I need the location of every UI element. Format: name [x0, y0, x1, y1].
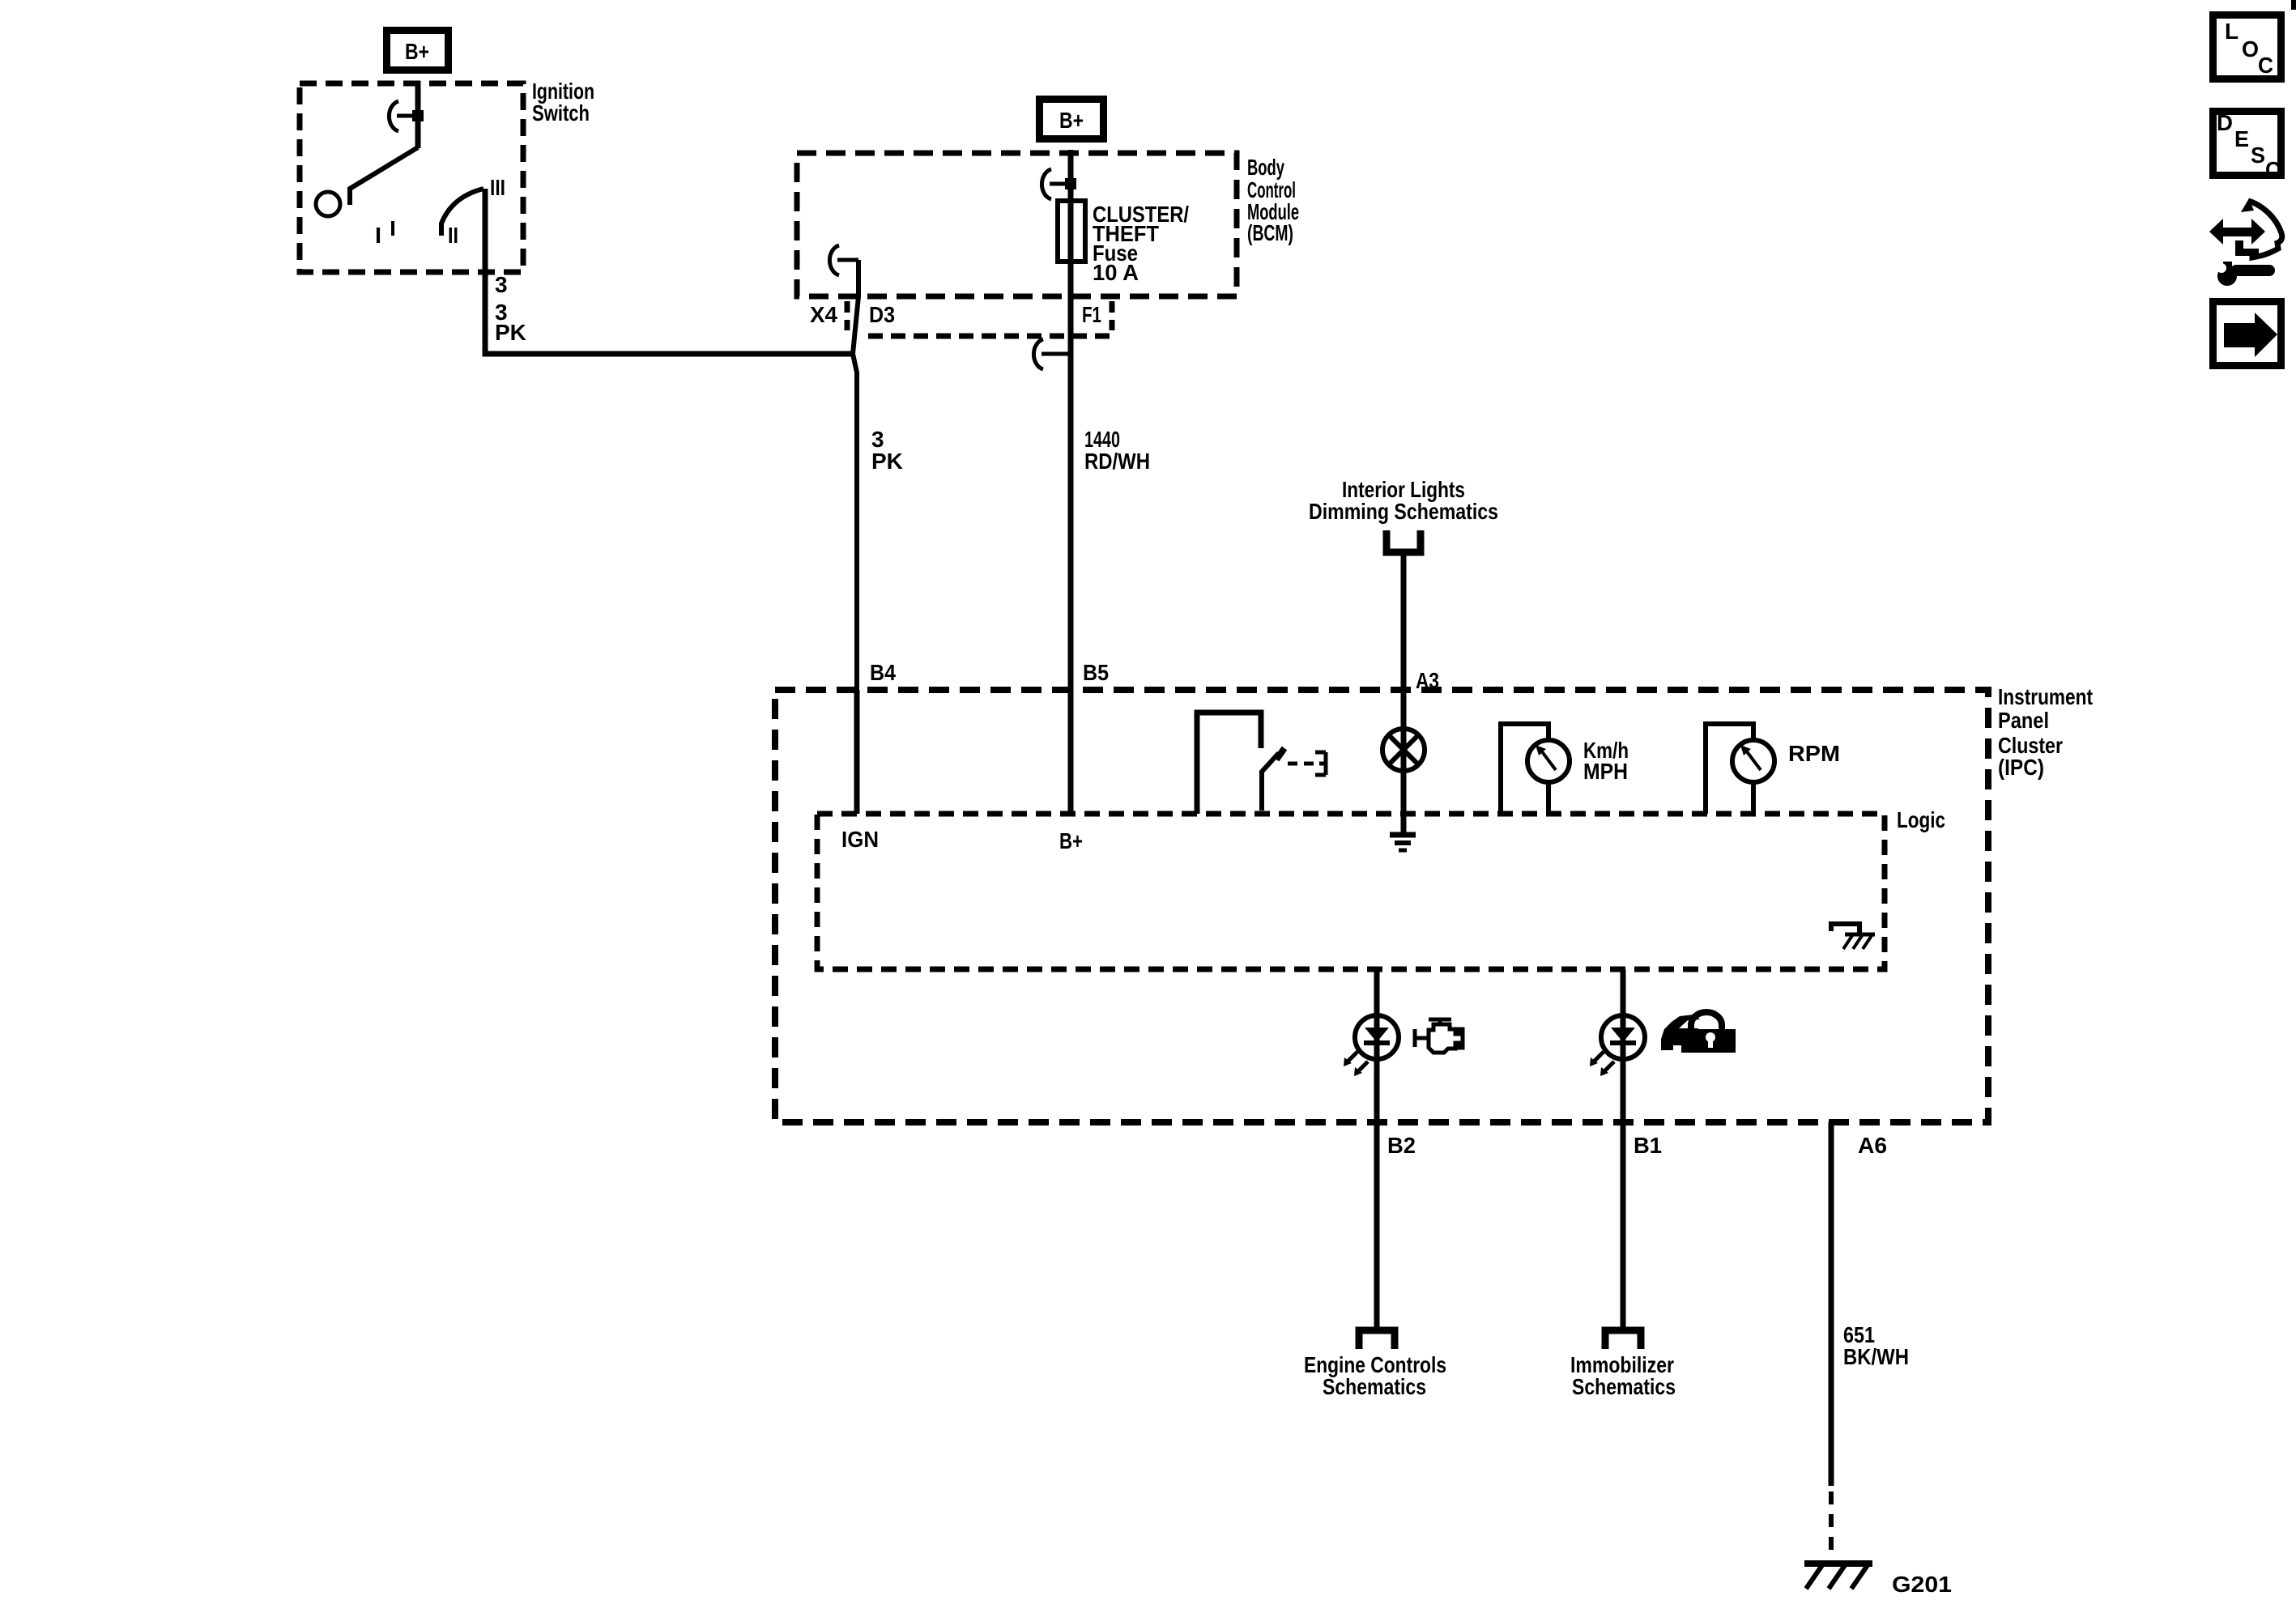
svg-text:Panel: Panel [1998, 708, 2049, 733]
svg-text:Body: Body [1247, 155, 1284, 180]
wire A6 651 BK/WH [1829, 1122, 1834, 1486]
svg-text:B1: B1 [1634, 1133, 1662, 1158]
blade tip barb [1276, 748, 1284, 760]
svg-text:Logic: Logic [1897, 807, 1945, 832]
svg-text:B+: B+ [405, 39, 429, 64]
wire label 1440 RD/WH [1084, 427, 1150, 474]
svg-text:RD/WH: RD/WH [1084, 449, 1150, 474]
wire A3 [1401, 555, 1407, 834]
connector band right tick [1110, 301, 1115, 330]
svg-text:A6: A6 [1858, 1133, 1887, 1158]
svg-text:10 A: 10 A [1093, 260, 1139, 285]
icon box LOC [2213, 15, 2281, 79]
off-page connector Interior Lights [1387, 530, 1421, 552]
ground under lamp [1390, 835, 1416, 850]
switch control dashed line [1288, 762, 1314, 766]
junction dot [412, 110, 424, 121]
svg-text:X4: X4 [810, 302, 837, 327]
wire from ignition II down and right to X4 [485, 189, 852, 354]
ignition switch box [300, 83, 523, 272]
svg-text:3: 3 [495, 272, 508, 297]
svg-text:(IPC): (IPC) [1998, 755, 2044, 780]
off-page connector engine controls [1359, 1330, 1395, 1349]
label CLUSTER/THEFT Fuse 10 A [1093, 202, 1189, 285]
page corner tick [2291, 0, 2296, 10]
B+ power symbol (ignition feed) [387, 31, 449, 70]
svg-text:D3: D3 [869, 302, 895, 327]
LED indicator security [1590, 1015, 1645, 1076]
wire B+ to ignition switch [415, 81, 421, 148]
LED indicator MIL [1344, 1015, 1399, 1076]
svg-text:E: E [2234, 126, 2249, 151]
svg-text:MPH: MPH [1583, 759, 1628, 784]
svg-text:Dimming Schematics: Dimming Schematics [1309, 499, 1498, 524]
contact II stub and arc to III [441, 189, 483, 236]
clip connector inside BCM at D3 [829, 245, 858, 275]
icon box DESC [2213, 110, 2281, 182]
label Interior Lights Dimming Schematics [1309, 477, 1498, 524]
off-page connector immobilizer [1605, 1330, 1641, 1349]
svg-text:BK/WH: BK/WH [1843, 1344, 1909, 1369]
svg-text:B4: B4 [870, 660, 896, 685]
clip connector below F1 [1033, 339, 1068, 369]
engine icon [1415, 1019, 1463, 1053]
svg-text:RPM: RPM [1788, 741, 1840, 766]
wire D3 through connector down to IPC [853, 260, 858, 690]
label Body Control Module (BCM) [1247, 155, 1299, 245]
label Ignition Switch [532, 79, 594, 126]
svg-text:B+: B+ [1059, 828, 1083, 853]
speedometer gauge [1501, 724, 1570, 814]
dashed wire to ground [1829, 1491, 1834, 1560]
svg-text:Switch: Switch [532, 100, 590, 126]
B+ power symbol (BCM feed) [1040, 100, 1104, 139]
ground G201 [1804, 1564, 1872, 1589]
wire B4 to IGN [854, 690, 860, 814]
junction dot [1065, 178, 1076, 189]
connector band left tick [845, 301, 850, 330]
svg-text:PK: PK [871, 449, 903, 474]
clip connector at ignition switch [389, 101, 418, 131]
svg-text:S: S [2251, 143, 2265, 168]
switch pivot circle [316, 192, 340, 216]
wire labels 3 3 PK [495, 272, 526, 345]
label Instrument Panel Cluster (IPC) [1998, 684, 2093, 780]
svg-text:G201: G201 [1892, 1572, 1952, 1597]
switch control bracket [1315, 752, 1326, 775]
svg-text:III: III [490, 175, 505, 200]
connector band X4 labels [810, 302, 1101, 327]
internal switch symbol [1197, 713, 1261, 814]
wire B5 to B+ [1068, 690, 1074, 814]
label 651 BK/WH [1843, 1322, 1909, 1369]
logic box [817, 814, 1885, 969]
fuse CLUSTER/THEFT 10A [1058, 201, 1085, 262]
internal chassis ground branch [1831, 924, 1875, 949]
svg-text:F1: F1 [1082, 302, 1101, 327]
svg-text:C: C [2258, 53, 2273, 78]
switch blade (ignition) [350, 147, 418, 205]
svg-text:Schematics: Schematics [1323, 1374, 1426, 1399]
label Immobilizer Schematics [1570, 1352, 1676, 1399]
lamp symbol (dimming) [1382, 729, 1425, 771]
switch blade internal [1262, 753, 1279, 811]
svg-text:Instrument: Instrument [1998, 684, 2093, 709]
label Km/h MPH [1583, 738, 1629, 784]
icon box arrow [2213, 302, 2281, 366]
wire fuse to F1 [1068, 201, 1074, 690]
contact tick I [391, 221, 394, 236]
svg-text:D: D [2217, 110, 2233, 135]
svg-text:B5: B5 [1083, 660, 1109, 685]
connector band bottom edge [868, 334, 1111, 339]
svg-text:Schematics: Schematics [1572, 1374, 1676, 1399]
tachometer gauge [1706, 724, 1774, 814]
instrument panel cluster box [775, 690, 1988, 1122]
svg-text:(BCM): (BCM) [1247, 220, 1293, 245]
label Engine Controls Schematics [1304, 1352, 1446, 1399]
svg-text:PK: PK [495, 320, 526, 345]
wire security LED B1 [1621, 969, 1626, 1328]
svg-text:B2: B2 [1387, 1133, 1416, 1158]
svg-text:L: L [2225, 19, 2238, 44]
svg-text:C: C [2265, 157, 2281, 182]
svg-text:O: O [2242, 36, 2259, 62]
icon hand with arrows and wrench [2209, 198, 2282, 286]
security icon car with lock [1661, 1012, 1736, 1053]
svg-text:I: I [375, 223, 381, 248]
svg-text:II: II [448, 223, 458, 248]
wire B+ into BCM [1068, 150, 1074, 204]
body control module box [797, 153, 1237, 296]
wire label 3 PK [871, 427, 903, 474]
svg-text:B+: B+ [1059, 108, 1084, 133]
wire MIL LED B2 [1374, 969, 1380, 1328]
clip connector at BCM B+ [1042, 169, 1071, 199]
svg-text:IGN: IGN [841, 827, 879, 852]
